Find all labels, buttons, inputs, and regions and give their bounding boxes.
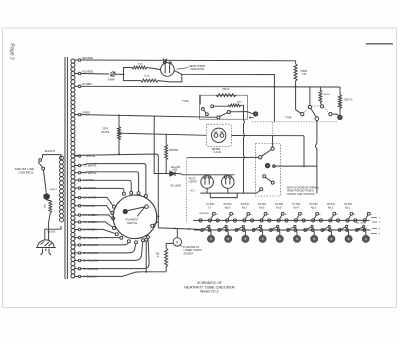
rotary contact 7 — [112, 217, 115, 220]
secondary tap 5 WHITE — [74, 204, 94, 208]
svg-text:390 RED: 390 RED — [82, 56, 93, 60]
lever switch row2 unit 2 — [218, 225, 228, 231]
resistor 7500 5W — [294, 61, 297, 87]
lever switch row1 unit 10 — [354, 212, 370, 222]
resistor 40ohm — [124, 66, 148, 74]
rotary contact 1 — [144, 195, 147, 198]
svg-text:BLACK: BLACK — [48, 230, 56, 233]
wire G up — [176, 229, 178, 238]
rotary contact 2 wire — [81, 172, 139, 192]
svg-text:s: s — [297, 110, 298, 112]
svg-text:TYPE: TYPE — [285, 117, 292, 120]
secondary tap .7 WHITE — [74, 154, 95, 158]
lever switch row2 unit 8 — [321, 225, 331, 231]
svg-text:Page 2: Page 2 — [9, 44, 15, 61]
svg-text:NO.1 (pin): NO.1 (pin) — [356, 222, 366, 224]
type switch dashed links — [304, 106, 329, 113]
wire 0RED drop — [154, 116, 166, 173]
rotary contact 13 — [142, 239, 145, 242]
wire y166 — [274, 165, 317, 167]
press switch dashed box — [256, 144, 281, 197]
svg-text:415 RED: 415 RED — [82, 69, 93, 73]
svg-text:800 %: 800 % — [223, 88, 231, 91]
lever switch row1 unit 6 — [285, 212, 301, 222]
right annotation 1 — [371, 217, 377, 219]
right annotation 2 — [372, 221, 377, 223]
wire black bottom — [45, 226, 61, 240]
svg-text:Model TC-2: Model TC-2 — [200, 289, 218, 293]
svg-text:NO.1 CAP: NO.1 CAP — [357, 228, 367, 231]
svg-text:LIGHTS: LIGHTS — [189, 182, 198, 184]
svg-text:750%: 750% — [237, 101, 243, 103]
lever switch row1 unit 5 — [268, 212, 284, 222]
svg-text:BLACK: BLACK — [50, 188, 58, 191]
resistor brown — [165, 134, 168, 164]
press switch lower contacts — [260, 175, 275, 191]
wire box edge to jack — [248, 112, 253, 114]
lever switch row1 unit 7 — [302, 212, 318, 222]
wire secondary top bus — [74, 154, 150, 155]
secondary tap 50 YELLOW — [74, 259, 99, 263]
transformer T1 line winding — [60, 156, 64, 222]
wire lamp output — [174, 71, 274, 122]
terminal dot right — [337, 115, 342, 120]
tube socket 6 — [294, 231, 301, 242]
wire B5 down — [145, 241, 147, 272]
switch SB upper — [200, 95, 213, 115]
svg-text:J: J — [302, 214, 303, 216]
rotary contact 5 wire — [81, 197, 113, 205]
node dot 189 — [188, 228, 190, 230]
svg-text:SWITCH SHOWN AT NORMAL: SWITCH SHOWN AT NORMAL — [287, 186, 320, 189]
svg-text:No.4: No.4 — [294, 207, 300, 210]
svg-text:GRN: GRN — [43, 204, 45, 209]
resistor 800ohm — [216, 94, 236, 97]
resistor 3870 5W — [338, 87, 341, 115]
svg-text:207A: 207A — [103, 128, 109, 131]
node plate junction — [118, 114, 120, 116]
resistor PLATE — [118, 115, 121, 154]
svg-text:TYPE: TYPE — [182, 100, 189, 103]
svg-text:BROWN: BROWN — [170, 150, 179, 152]
tube socket 10 — [362, 231, 369, 242]
resistor 210ohm — [124, 74, 159, 82]
wire contact to dot — [332, 114, 340, 116]
svg-text:METERS: METERS — [200, 213, 210, 215]
wire row2 feed — [158, 228, 200, 230]
svg-text:210 A: 210 A — [144, 74, 150, 77]
press box contact right — [273, 165, 276, 168]
node 304 junction — [303, 165, 305, 167]
rotary contact 7 wire — [81, 215, 112, 218]
lever switch row2 unit 9 — [338, 225, 348, 231]
panel jack dot — [253, 111, 258, 116]
wire type pivot down — [315, 121, 317, 194]
node fuse junction — [123, 74, 125, 76]
wire 390 RED bus — [81, 59, 296, 62]
tube socket 4 — [259, 231, 266, 242]
rotary contact 10 wire — [81, 237, 120, 239]
pilot lamp 2 — [222, 176, 235, 189]
meter M1 — [212, 128, 226, 142]
svg-text:5 W: 5 W — [302, 73, 307, 76]
tube socket 7 — [311, 231, 318, 242]
svg-text:No.2: No.2 — [328, 207, 334, 210]
svg-text:No.5: No.5 — [276, 207, 282, 210]
secondary tap 70 YELLOW — [74, 267, 99, 271]
rotary contact 12 wire — [81, 244, 136, 253]
control knob (filled) — [43, 193, 50, 200]
right annotation 3 — [372, 228, 377, 230]
wire lamp bottoms — [200, 188, 260, 193]
right annotation 4 — [371, 233, 377, 235]
lever switch row2 unit 7 — [304, 225, 314, 231]
secondary tap 12 YELLOW — [74, 236, 99, 240]
node bus junction b — [295, 86, 297, 88]
svg-text:FILAMENT: FILAMENT — [126, 217, 139, 221]
lever switch row2 unit 3 — [235, 225, 245, 231]
svg-text:%: % — [157, 257, 159, 259]
svg-text:30 RED: 30 RED — [82, 82, 92, 86]
svg-text:No.7: No.7 — [242, 207, 248, 210]
wire long vertical 243 — [243, 105, 246, 193]
wire 7500 to type switch — [296, 87, 301, 113]
rotary contact 9 wire — [81, 229, 115, 233]
svg-text:No.1: No.1 — [345, 207, 351, 210]
resistor 750 lower — [165, 248, 168, 267]
svg-text:No.6: No.6 — [259, 207, 265, 210]
svg-text:YEL LEAD: YEL LEAD — [170, 185, 181, 188]
rheostat R-line — [47, 200, 52, 213]
secondary tap 2 WHITE — [74, 178, 94, 182]
secondary tap 2.5 WHITE — [74, 186, 97, 190]
tube socket 2 — [225, 231, 232, 242]
svg-text:3870 %: 3870 % — [344, 98, 353, 101]
rotary contact B5 — [145, 238, 148, 241]
rotary contact 3 wire — [81, 180, 131, 191]
secondary tap 20 YELLOW — [74, 243, 99, 247]
rotary contact 14 — [146, 236, 149, 239]
rotary contact 10 — [120, 236, 123, 239]
tube socket 3 — [242, 231, 249, 242]
secondary tap 0 YELLOW — [74, 275, 97, 279]
switch box outline — [200, 95, 248, 119]
svg-text:A C --: A C -- — [191, 189, 197, 192]
primary tap 0 RED — [74, 110, 90, 115]
svg-text:40 A: 40 A — [138, 63, 143, 66]
node dot 175 — [174, 228, 176, 230]
svg-text:YELLOW: YELLOW — [171, 167, 181, 169]
AC line plug — [36, 240, 56, 255]
wire 750 to G — [166, 243, 173, 248]
rotary contact 3 — [130, 191, 133, 194]
svg-text:No.3: No.3 — [311, 207, 317, 210]
neon lamp NE-1 — [161, 62, 175, 77]
wire through meter — [231, 135, 304, 137]
primary tap 30 RED — [74, 82, 92, 88]
pilot lamp 1 — [201, 176, 214, 189]
wire fuse to junction — [115, 73, 123, 75]
lever switch row2 unit 4 — [252, 225, 262, 231]
node junction 158 — [157, 215, 159, 217]
rotary contact 5 — [113, 205, 116, 208]
wire 210ohm bypass — [158, 74, 182, 82]
press box jack dot — [265, 163, 270, 168]
svg-text:PILOT: PILOT — [189, 179, 196, 181]
svg-text:0 RED: 0 RED — [82, 110, 90, 114]
resistor 600ohm — [319, 87, 322, 105]
dashed link vertical — [272, 122, 274, 134]
rotary contact 1 wire — [81, 164, 146, 195]
switch SB lower — [217, 111, 248, 119]
node junction 272 — [145, 271, 147, 273]
lever switch row2 unit 1 — [201, 225, 211, 231]
lever switch row1 unit 8 — [319, 212, 335, 222]
secondary tap 10 GREEN — [74, 228, 97, 232]
secondary tap 1.4 WHITE — [74, 171, 97, 175]
rotary right contact — [151, 224, 154, 227]
primary tap 390 RED — [74, 56, 93, 62]
svg-text:LOWER 7 RADIO: LOWER 7 RADIO — [184, 249, 202, 252]
wire bus1 corner down — [151, 154, 159, 228]
svg-text:SOCKET: SOCKET — [184, 254, 194, 256]
wire switch to knob — [43, 170, 46, 193]
wire lamp return — [210, 193, 237, 198]
rotary contact 11 wire — [81, 243, 128, 245]
lever switch row1 unit 9 — [337, 212, 353, 222]
row1 wire — [193, 219, 370, 221]
svg-text:INDICATOR: INDICATOR — [191, 68, 205, 71]
secondary tap 6.3 GREEN — [74, 213, 97, 217]
svg-text:0-1 MA: 0-1 MA — [214, 151, 222, 154]
wire 30 RED main bus — [81, 85, 340, 88]
wire crossover X — [163, 59, 167, 63]
tube socket 9 — [345, 231, 352, 242]
svg-text:(6 pin): (6 pin) — [364, 237, 370, 239]
type switch contacts — [301, 105, 332, 121]
svg-text:PLATE: PLATE — [102, 131, 110, 134]
wire 415 RED to fuse — [81, 73, 109, 76]
dashed mech link mid — [186, 158, 188, 222]
secondary tap 35 YELLOW — [74, 251, 99, 255]
wire 0 RED to box — [81, 115, 217, 118]
wire over lamps — [183, 174, 235, 176]
lever switch row1 unit 2 — [216, 212, 232, 222]
rotary contact 6 — [111, 212, 114, 215]
rotary contact 2 — [137, 192, 140, 195]
wire meter bus corner — [303, 136, 305, 166]
wire black top — [43, 155, 62, 160]
wire plate tap to meter — [119, 133, 206, 135]
top right dash mark — [366, 43, 393, 45]
svg-text:BLACK R: BLACK R — [45, 150, 56, 153]
rotary contact 8 — [113, 227, 116, 230]
rotary contact 14 wire — [81, 239, 149, 268]
rotary contact 11 — [127, 240, 130, 243]
wire press feed — [187, 156, 259, 158]
rectifier diode — [166, 164, 182, 176]
line switch S1 — [38, 159, 45, 170]
lever switch row1 unit 1 — [199, 212, 215, 222]
wire 0 YELLOW run — [81, 272, 140, 276]
wire to 750 top — [140, 267, 166, 272]
lever switch row2 unit 10 — [355, 225, 365, 231]
svg-text:VIEW FROM BOTTOM IN: VIEW FROM BOTTOM IN — [287, 191, 314, 193]
press switch — [259, 136, 275, 159]
svg-text:"ADJUST LINE" POSITION: "ADJUST LINE" POSITION — [287, 193, 316, 196]
svg-text:IN CENTER OF: IN CENTER OF — [183, 247, 200, 249]
rotary contact 8 wire — [81, 222, 113, 227]
svg-text:3 AMP: 3 AMP — [108, 79, 115, 82]
secondary tap 3.3 WHITE — [74, 196, 97, 200]
svg-text:CONTROL: CONTROL — [19, 171, 34, 175]
transformer T1 core — [65, 57, 67, 279]
socket G circle — [173, 238, 181, 246]
rotary contact 9 — [115, 233, 118, 236]
tube socket 5 — [276, 231, 283, 242]
svg-text:No.8: No.8 — [225, 207, 231, 210]
svg-text:SWITCH: SWITCH — [127, 221, 137, 225]
tube socket 1 — [208, 231, 215, 242]
rotary contact 4 — [122, 192, 125, 195]
rotary pointer — [128, 207, 145, 216]
secondary tap 7.5 GREEN — [74, 220, 97, 224]
rotary contact 12 — [135, 241, 138, 244]
primary tap 415 RED — [74, 69, 93, 74]
dashed link horizontal — [252, 121, 337, 123]
jack arrow mark — [249, 117, 254, 119]
lever switch row1 unit 3 — [233, 212, 249, 222]
secondary tap .75 WHITE — [74, 164, 97, 168]
rotary contact 13 wire — [81, 242, 143, 260]
node bus junction a — [274, 86, 276, 88]
tube socket 8 — [328, 231, 335, 242]
meter dashed box — [206, 124, 231, 146]
resistor 750 in box — [214, 104, 244, 107]
lever switch row2 unit 5 — [269, 225, 279, 231]
rotary hub (filled) — [123, 209, 128, 214]
lever switch row1 unit 4 — [251, 212, 267, 222]
svg-text:1-7: 1-7 — [208, 207, 212, 210]
transformer T1 main winding — [71, 59, 75, 278]
wire rheostat to plug — [49, 213, 51, 240]
filament rotary switch circle — [113, 195, 157, 239]
rotary contact 4 wire — [81, 188, 124, 192]
wire right contact link — [154, 221, 159, 224]
wire bus to contact — [309, 87, 311, 105]
lever switch row2 unit 6 — [287, 225, 297, 231]
node bus junction c — [118, 153, 120, 155]
wire 40ohm to lamp — [147, 68, 161, 70]
fuse F1 3AMP — [108, 72, 116, 82]
row2 wire — [194, 229, 371, 231]
svg-text:600%: 600% — [324, 94, 330, 96]
rotary contact 6 wire — [81, 206, 111, 212]
